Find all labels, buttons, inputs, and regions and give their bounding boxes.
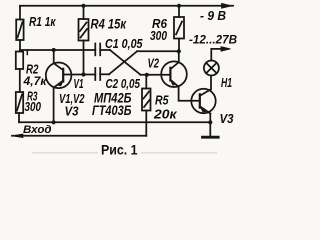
wire node A horizontal: [20, 49, 95, 51]
wire C1 diagonal to V2 base: [110, 50, 141, 75]
wire V2 base line: [141, 74, 171, 76]
wire V1 emitter down: [53, 88, 55, 123]
resistor R1: [16, 20, 23, 41]
svg-text:300: 300: [25, 100, 42, 114]
resistor R5: [142, 89, 151, 111]
wire stub at R2 top: [26, 50, 28, 55]
transistor V3: [191, 89, 215, 114]
lamp H1: [204, 61, 219, 76]
wire V2 emitter down then right to V3 base: [179, 87, 200, 101]
wire R1 to R2: [19, 40, 21, 52]
node dot R4 top: [81, 4, 85, 8]
svg-text:300: 300: [150, 28, 168, 43]
resistor R4: [79, 19, 89, 41]
transistor V2: [161, 61, 187, 87]
wire C2 diagonal up: [109, 51, 137, 74]
svg-text:V2: V2: [148, 55, 160, 70]
wire V3 emitter down to ground: [209, 114, 211, 123]
node dot V2 base / R5: [145, 73, 149, 77]
wire C1 right stub: [100, 49, 110, 51]
node dot V1 emitter / rail: [52, 120, 56, 124]
svg-text:V1: V1: [74, 77, 84, 91]
svg-text:С2 0,05: С2 0,05: [106, 76, 141, 91]
arrow input left: [12, 134, 24, 138]
svg-text:4,7к: 4,7к: [22, 74, 47, 88]
wire upper to R6/V2 collector: [137, 50, 179, 52]
svg-text:V3: V3: [220, 111, 235, 126]
resistor R2: [16, 52, 23, 70]
capacitor C1: [95, 44, 100, 56]
svg-text:R5: R5: [155, 94, 169, 108]
svg-text:Н1: Н1: [221, 76, 232, 90]
svg-text:ГТ403Б: ГТ403Б: [92, 103, 132, 118]
wire R3 to bottom rail corner: [18, 113, 20, 122]
node dot upper right: [177, 49, 181, 53]
wire V1 base line to C2: [63, 74, 95, 76]
capacitor C2: [95, 68, 100, 80]
resistor R3: [16, 92, 23, 113]
svg-text:R1 1к: R1 1к: [29, 14, 57, 29]
svg-text:Рис. 1: Рис. 1: [101, 141, 138, 157]
wire R4 top lead: [83, 6, 85, 19]
svg-text:С1 0,05: С1 0,05: [105, 36, 143, 51]
wire top rail -9V: [20, 5, 233, 7]
arrow -9V rail end: [222, 3, 232, 8]
wire lamp top to -12..27V arrow: [211, 49, 228, 61]
wire R6 bottom lead: [178, 39, 180, 52]
faint bleed-through line left: [32, 152, 98, 153]
wire R4 bottom lead to V1 base: [83, 41, 85, 75]
transistor V1: [46, 63, 72, 89]
wire V3 collector up to lamp: [210, 76, 212, 90]
node dot V1 base / R4: [81, 72, 85, 76]
node dot R6 top: [177, 4, 181, 8]
wire V2 collector up: [178, 51, 180, 62]
wire left drop from rail to R1: [19, 6, 21, 20]
wire R5 top lead: [145, 75, 147, 89]
wire R2 to R3: [19, 69, 21, 92]
svg-text:- 9 В: - 9 В: [200, 9, 226, 23]
node dot V1 collector: [52, 48, 56, 52]
wire input line: [12, 135, 146, 137]
svg-text:V3: V3: [65, 103, 80, 118]
wire C2 right stub: [100, 73, 109, 75]
arrow -12..27V: [221, 47, 231, 52]
wire R6 top lead: [178, 6, 180, 17]
svg-text:-12...27В: -12...27В: [189, 33, 237, 47]
faint bleed-through line right: [141, 152, 217, 153]
svg-text:20к: 20к: [153, 108, 177, 122]
resistor R6: [174, 17, 184, 39]
svg-text:Вход: Вход: [23, 124, 52, 136]
wire bottom rail: [19, 121, 210, 123]
wire V1 collector up: [53, 50, 55, 63]
node dot V3 emitter / ground: [208, 120, 212, 124]
ground: [203, 122, 219, 137]
svg-text:R4 15к: R4 15к: [91, 16, 127, 31]
wire R5 bottom lead: [145, 111, 147, 136]
